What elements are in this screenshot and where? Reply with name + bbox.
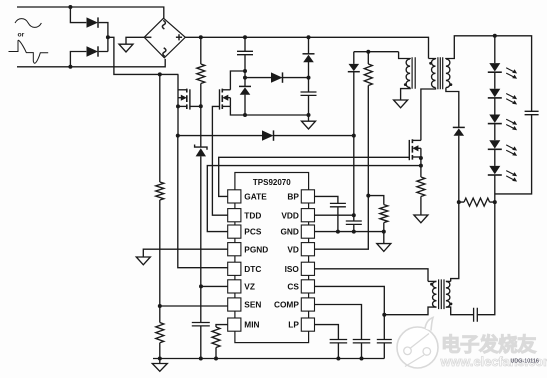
capacitor C8: [353, 340, 371, 343]
wire PCS line: [207, 166, 421, 232]
bridge label ~ bottom: [163, 48, 166, 57]
svg-text:TPS92070: TPS92070: [253, 178, 291, 187]
resistor R4: [417, 177, 425, 197]
diode D6: [349, 64, 360, 71]
wire rail to ground: [159, 359, 161, 364]
svg-text:VZ: VZ: [244, 282, 255, 292]
node snubber-R6 left: [457, 200, 461, 204]
diode D4: [271, 72, 283, 82]
wire T1 primary bottom lead: [421, 88, 436, 141]
wire CS cap branch: [383, 315, 385, 340]
U1 pin box COMP: [301, 298, 314, 311]
node rail C1 tap: [243, 35, 247, 39]
wire MIN line: [216, 325, 228, 327]
wire VDD line: [315, 214, 354, 216]
wire Q1 drain feed: [177, 74, 179, 135]
wire PGND line: [143, 249, 227, 257]
wire COMP line: [315, 305, 362, 340]
transformer T2 core: [439, 279, 444, 309]
watermark logo circle: [397, 318, 438, 369]
wire aux to D6: [353, 52, 355, 64]
wire C1 to D5: [244, 55, 246, 87]
wire bridge minus to earth: [126, 37, 144, 44]
wire D1/D2 cathode join: [99, 23, 108, 52]
wire LED feed: [494, 36, 496, 63]
U1 pin box VZ: [228, 280, 241, 293]
node vdd column tap: [352, 134, 356, 138]
node D3/D4 junction: [307, 76, 311, 80]
node left-rail tap: [158, 72, 162, 76]
wire output right rail: [495, 115, 532, 194]
wire D5 to q2 source line: [244, 95, 246, 115]
wire Q1 gate to D7: [178, 135, 262, 137]
wire R7 to rail: [159, 343, 161, 359]
resistor R2: [364, 64, 372, 86]
resistor R1: [197, 64, 205, 84]
wire R4 to ground: [420, 197, 422, 216]
node VD junction: [366, 194, 370, 198]
wire T2 left top lead: [428, 280, 437, 282]
wire R5 top: [368, 196, 384, 205]
node GND-C5: [352, 230, 356, 234]
bridge label ~ top: [162, 20, 165, 29]
U1 pin box MIN: [228, 318, 241, 331]
ground earth at bridge: [119, 44, 133, 52]
svg-text:ISO: ISO: [285, 264, 300, 274]
svg-text:VD: VD: [287, 244, 299, 254]
wire LED column down: [477, 202, 495, 315]
diode D1: [87, 17, 99, 27]
wire zener to VZ/cap: [200, 156, 202, 322]
svg-text:电子发烧友: 电子发烧友: [441, 333, 537, 356]
svg-text:PGND: PGND: [244, 244, 268, 254]
capacitor C6: [192, 323, 210, 326]
LED D10 with emission arrows: [489, 63, 500, 71]
wire T1 secondary top lead: [446, 36, 532, 112]
wire GND pin line: [315, 232, 384, 244]
wire D7 cathode to vdd column: [274, 135, 354, 137]
U1 pin box BP: [301, 190, 314, 203]
svg-text:GND: GND: [280, 227, 298, 237]
wire T2 left bottom lead: [384, 307, 436, 315]
U1 pin box GATE: [228, 190, 241, 203]
wire VZ line: [201, 285, 228, 287]
wire SEN line: [160, 305, 228, 307]
LED D11 with emission arrows: [489, 89, 500, 97]
ac source phase-cut dimmer waveform: [9, 40, 49, 63]
wire D4 cathode: [282, 77, 309, 79]
node CS junction: [382, 313, 386, 317]
LED D13 with emission arrows: [489, 140, 500, 148]
U1 pin box PGND: [228, 243, 241, 256]
ground at R4: [414, 215, 428, 223]
zener diode DZ1: [195, 145, 207, 150]
wire C9 to rail: [383, 343, 385, 359]
wire Q1 gate stub: [190, 105, 201, 107]
wire LED0 link: [494, 73, 496, 89]
diode D7: [262, 130, 274, 140]
bridge label plus: [176, 34, 182, 40]
wire R6 leads: [459, 201, 495, 203]
node rail R1 tap: [199, 35, 203, 39]
svg-text:CS: CS: [287, 282, 299, 292]
wire LP line: [315, 325, 339, 340]
svg-text:UDG-10116: UDG-10116: [511, 359, 539, 365]
svg-text:VDD: VDD: [281, 210, 299, 220]
transformer T2 right winding: [446, 281, 450, 307]
node Q2 drain tap: [243, 69, 247, 73]
node rail D3 tap: [307, 35, 311, 39]
wire LED3 link: [494, 150, 496, 166]
LED D12 with emission arrows: [489, 115, 500, 123]
wire Q2 source line: [230, 106, 308, 115]
wire D3 to C2: [308, 62, 310, 92]
wire GATE line: [219, 157, 410, 196]
wire T1 secondary bottom lead: [446, 88, 459, 128]
wire aux bottom lead: [401, 88, 411, 100]
node SEN junction: [158, 304, 162, 308]
capacitor C5: [346, 221, 362, 224]
wire Q3 source down: [420, 157, 422, 177]
wire DTC line: [178, 136, 228, 268]
node aux resistor tap: [366, 50, 370, 54]
svg-text:BP: BP: [287, 192, 299, 202]
U1 pin box GND: [301, 225, 314, 238]
capacitor C3: [525, 111, 539, 114]
resistor R8: [212, 327, 220, 347]
wire R8 to rail: [215, 348, 217, 359]
wire C5 to GND line: [353, 224, 355, 231]
bridge rectifier BR1: [144, 18, 185, 58]
node ac-top junction: [68, 5, 72, 9]
op-amp U1 TPS92070 body: [235, 173, 309, 343]
diode D9: [453, 126, 465, 128]
LED D14 with emission arrows: [489, 166, 500, 174]
node PCS at Q3 source: [419, 164, 423, 168]
node T2 left dot: [430, 283, 433, 286]
node rail-LP: [336, 357, 340, 361]
wire bottom ground rail: [153, 358, 384, 360]
node D4 tap: [243, 76, 247, 80]
node Q1 gate junction: [176, 134, 180, 138]
wire Q2 gate lead: [212, 106, 227, 215]
node ac-bottom junction: [68, 65, 72, 69]
U1 pin box CS: [301, 280, 314, 293]
node diode join: [106, 35, 110, 39]
node VDD junction: [352, 213, 356, 217]
wire C8 to rail: [361, 343, 363, 359]
wire BP line: [315, 196, 338, 203]
inductor L1 winding: [406, 59, 410, 88]
node T1 secondary dot: [450, 83, 453, 86]
transistor Q2: [221, 89, 223, 109]
resistor R3: [156, 182, 164, 200]
wire left rail mid: [159, 200, 161, 323]
node GND-C4: [336, 230, 340, 234]
svg-text:or: or: [18, 32, 25, 39]
wire LED2 link: [494, 124, 496, 140]
ground at C2: [302, 121, 316, 129]
transistor Q3: [411, 139, 413, 159]
diode D3: [303, 53, 315, 55]
node rail-left: [158, 357, 162, 361]
svg-text:DTC: DTC: [244, 264, 261, 274]
svg-text:GATE: GATE: [244, 192, 267, 202]
ground bottom-left: [152, 364, 167, 372]
svg-text:PCS: PCS: [244, 227, 262, 237]
node T2 right dot: [450, 303, 453, 306]
wire R5 bottom: [383, 223, 385, 232]
svg-text:COMP: COMP: [274, 300, 299, 310]
U1 pin box LP: [301, 318, 314, 331]
wire D4 anode: [245, 77, 271, 79]
wire T2 right bottom lead: [446, 307, 474, 315]
svg-text:TDD: TDD: [244, 210, 261, 220]
wire aux top lead: [399, 52, 411, 59]
node T1 primary dot: [429, 62, 432, 65]
capacitor C7: [330, 340, 348, 343]
U1 pin box DTC: [228, 262, 241, 275]
wire aux top line: [354, 51, 399, 53]
U1 pin box PCS: [228, 225, 241, 238]
wire C4 to GND line: [337, 207, 339, 232]
node Q1 source junction: [199, 104, 203, 108]
wire D9 to T2: [451, 136, 459, 282]
ground at PGND: [136, 257, 150, 265]
wire R1 to Q1 source: [200, 84, 202, 147]
node LED rail tap: [493, 34, 497, 38]
transistor Q1: [186, 89, 188, 109]
wire rail to C1: [244, 37, 246, 51]
transformer T1 core: [438, 57, 443, 89]
node VZ junction: [199, 284, 203, 288]
node Q3 source: [419, 156, 423, 160]
wire rectified DC rail: [185, 37, 428, 58]
ac source sine waveform: [15, 19, 41, 28]
node rail-C6: [199, 357, 203, 361]
resistor R5: [380, 205, 388, 223]
capacitor C10: [474, 308, 478, 322]
node Q2 source junction: [243, 113, 247, 117]
capacitor C2: [301, 92, 317, 95]
U1 pin box VDD: [301, 209, 314, 222]
wire aux to R2: [367, 52, 369, 64]
wire LED1 link: [494, 98, 496, 114]
diode D5: [239, 85, 251, 87]
U1 pin box VD: [301, 243, 314, 256]
wire ac bottom to D2: [70, 52, 86, 67]
wire rail to R1: [200, 37, 202, 64]
wire ISO line: [315, 269, 429, 282]
node L1 polarity dot: [404, 83, 407, 86]
U1 pin box SEN: [228, 298, 241, 311]
wire ac top to D1: [70, 7, 86, 23]
wire ac bottom rail: [17, 59, 165, 67]
wire rail to D3: [308, 37, 310, 54]
wire R2 to VD node: [367, 86, 369, 196]
transformer T1 secondary winding: [446, 59, 450, 88]
capacitor C9: [377, 340, 392, 343]
wire C7 to rail: [337, 343, 339, 359]
svg-text:LP: LP: [288, 320, 299, 330]
U1 pin box ISO: [301, 262, 314, 275]
node source-line junction: [307, 113, 311, 117]
inductor L1 core: [412, 57, 415, 89]
wire VD line: [315, 196, 369, 250]
wire CS line: [315, 286, 385, 314]
transformer T1 primary winding: [432, 59, 436, 88]
capacitor C1: [237, 51, 253, 54]
node GND-R5: [382, 230, 386, 234]
svg-text:SEN: SEN: [244, 300, 261, 310]
resistor R7: [156, 323, 164, 343]
bridge label minus: [145, 36, 151, 38]
wire diode join to mosfet rail: [108, 37, 178, 74]
wire LED4 link: [494, 175, 496, 202]
node rail-R8: [214, 357, 218, 361]
wire ac top rail: [17, 7, 164, 18]
node R6 right: [493, 200, 497, 204]
ground at GND pin: [377, 244, 391, 252]
wire C2 to ground: [308, 95, 310, 121]
wire Q2 drain: [230, 71, 245, 90]
ground at aux winding: [394, 100, 408, 108]
U1 pin box TDD: [228, 209, 241, 222]
wire T1 primary top lead: [429, 58, 436, 61]
svg-text:MIN: MIN: [244, 320, 259, 330]
node rail-COMP: [360, 357, 364, 361]
wire D6 to VDD: [353, 71, 355, 221]
capacitor C4: [330, 203, 346, 206]
wire left rail upper: [159, 74, 161, 182]
node Q1 body-source tie: [176, 104, 180, 108]
wire T2 right top lead: [446, 280, 451, 282]
transformer T2 left winding: [433, 281, 437, 307]
wire C6 to gnd rail: [200, 326, 202, 359]
resistor R6: [464, 198, 490, 206]
diode D2: [87, 46, 99, 56]
